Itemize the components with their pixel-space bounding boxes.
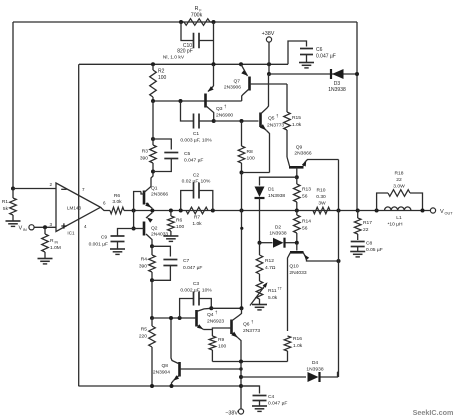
- svg-text:220: 220: [139, 334, 147, 340]
- node inverting input junction: [11, 187, 15, 191]
- svg-text:3: 3: [49, 222, 52, 227]
- ground C4: [252, 406, 267, 411]
- junction lower collector column: [240, 306, 244, 310]
- svg-text:R18: R18: [395, 171, 404, 177]
- junction R4 top: [150, 244, 154, 248]
- diode D1: [255, 187, 265, 243]
- junction Q8 collector: [169, 316, 173, 320]
- svg-text:Q6: Q6: [243, 322, 250, 328]
- svg-text:R15: R15: [292, 115, 301, 121]
- label RIN: [50, 238, 61, 251]
- svg-text:0.05 µF: 0.05 µF: [366, 247, 383, 253]
- svg-text:R11: R11: [268, 288, 277, 294]
- label Q8: [153, 363, 170, 376]
- wire Q3 base net: [153, 100, 242, 102]
- resistor R4: [149, 246, 156, 280]
- svg-text:D2: D2: [275, 225, 282, 231]
- junction D2 anode: [258, 241, 262, 245]
- resistor R1: [10, 189, 17, 222]
- label C2: [182, 173, 211, 185]
- svg-text:R10: R10: [317, 188, 326, 194]
- svg-text:7: 7: [82, 187, 85, 192]
- svg-text:Q9: Q9: [296, 145, 303, 151]
- junction RF left: [179, 20, 183, 24]
- svg-text:700k: 700k: [191, 13, 203, 19]
- label C5: [184, 151, 203, 164]
- svg-text:SeekIC.com: SeekIC.com: [413, 408, 454, 417]
- wire Q4 base net: [152, 317, 194, 319]
- ground C9: [110, 249, 125, 254]
- wire D4 net: [241, 372, 338, 377]
- label Q4: [207, 310, 224, 325]
- label C6: [316, 47, 336, 60]
- label R12: [265, 258, 276, 271]
- wire D1 net: [260, 177, 297, 185]
- terminal +38V: [266, 37, 271, 64]
- label R1: [2, 199, 9, 212]
- junction R6b top: [169, 209, 173, 213]
- ground R1: [6, 221, 21, 226]
- wire output rail segment: [358, 210, 431, 212]
- resistor R6b 100: [168, 211, 175, 237]
- svg-text:R14: R14: [302, 219, 311, 225]
- resistor R7: [186, 207, 208, 214]
- label D2: [269, 225, 286, 237]
- svg-text:820 pF: 820 pF: [177, 49, 193, 55]
- svg-text:*10 µH: *10 µH: [387, 222, 403, 228]
- junction R4 bottom: [150, 278, 154, 282]
- svg-text:22: 22: [396, 177, 402, 183]
- svg-text:1N3938: 1N3938: [268, 193, 285, 199]
- label L1: [387, 215, 403, 228]
- capacitor C1: [181, 101, 214, 129]
- svg-text:0.001 µF: 0.001 µF: [89, 242, 108, 248]
- label R6: [112, 193, 122, 205]
- wire op-amp output: [101, 207, 111, 210]
- svg-text:390: 390: [139, 264, 147, 270]
- junction Q1 emitter rail: [150, 209, 154, 213]
- label C10: [163, 43, 193, 61]
- junction C1 tap: [179, 99, 183, 103]
- wire top feedback net from inverting input to output rail: [13, 21, 357, 23]
- label D1: [268, 187, 285, 200]
- label Q3: [216, 104, 233, 119]
- svg-text:0.30: 0.30: [316, 194, 326, 200]
- svg-text:0.047 µF: 0.047 µF: [268, 401, 287, 407]
- label R9: [218, 337, 226, 350]
- wire Q4 collector net: [211, 307, 241, 309]
- wire D3 net: [269, 73, 357, 75]
- svg-text:56: 56: [302, 226, 308, 232]
- terminal VIN: [29, 225, 34, 230]
- label C1: [180, 131, 212, 144]
- wire emitter resistor return: [212, 361, 287, 363]
- wire Q3 emitter riser: [213, 64, 215, 86]
- label D4: [306, 360, 323, 373]
- svg-text:Q4: Q4: [207, 312, 214, 318]
- label C9: [89, 235, 108, 248]
- capacitor C6: [300, 49, 313, 63]
- junction R10 right: [337, 209, 341, 213]
- label R6b: [176, 218, 184, 231]
- junction Q9 base node: [295, 175, 299, 179]
- label R10: [316, 188, 326, 207]
- terminal -38V: [238, 409, 243, 414]
- capacitor C3: [180, 292, 212, 319]
- label Q6: [243, 320, 260, 335]
- resistor RIN: [42, 227, 49, 258]
- svg-text:2N6900: 2N6900: [216, 113, 233, 119]
- wire -38V column: [240, 362, 242, 410]
- svg-text:R17: R17: [363, 220, 372, 226]
- resistor R15: [284, 84, 291, 157]
- transistor Q6: [229, 308, 242, 361]
- svg-text:1N3938: 1N3938: [328, 87, 346, 93]
- junction D4 node: [239, 375, 243, 379]
- wire R4 to base node: [151, 280, 153, 318]
- transistor Q9: [287, 157, 339, 177]
- label R17: [363, 220, 372, 233]
- pin 7 label: [82, 187, 85, 192]
- resistor R18: [377, 190, 423, 211]
- potentiometer R11: [250, 281, 268, 306]
- svg-text:100: 100: [247, 156, 255, 162]
- label Q2: [151, 226, 168, 238]
- capacitor C10: [181, 22, 214, 48]
- svg-text:R12: R12: [265, 258, 274, 264]
- svg-text:C3: C3: [193, 281, 200, 287]
- svg-text:R9: R9: [218, 337, 225, 343]
- transistor Q5: [260, 74, 270, 173]
- resistor R3: [150, 139, 157, 172]
- junction RIN top: [43, 225, 47, 229]
- svg-text:R13: R13: [302, 187, 311, 193]
- wire Q1 base riser: [134, 192, 141, 211]
- label VOUT: [440, 209, 453, 216]
- svg-text:3W: 3W: [318, 201, 326, 207]
- label R8: [247, 149, 255, 162]
- wire pin2 input: [13, 188, 56, 190]
- label RF value: [191, 6, 203, 19]
- junction C3 tap: [178, 316, 182, 320]
- label R7: [192, 215, 202, 228]
- diode D2: [273, 238, 285, 248]
- resistor R13: [294, 177, 301, 210]
- svg-text:6: 6: [103, 201, 106, 206]
- svg-text:0.02 µF, 10%: 0.02 µF, 10%: [182, 179, 211, 185]
- junction R2 top: [151, 62, 155, 66]
- label R14: [302, 219, 311, 232]
- pin 2 label: [49, 182, 52, 187]
- capacitor C8: [351, 242, 365, 252]
- junction Q3 collector node: [212, 119, 216, 123]
- label Q9: [294, 145, 311, 157]
- transistor Q3: [206, 86, 214, 121]
- junction Q2 base node: [132, 227, 136, 231]
- wire Q2 base riser: [133, 211, 135, 229]
- pin 4 label: [84, 224, 87, 229]
- junction RF right: [212, 20, 216, 24]
- svg-text:0.047 µF: 0.047 µF: [184, 158, 203, 164]
- svg-text:R8: R8: [247, 149, 254, 155]
- junction R3 top: [151, 137, 155, 141]
- svg-text:IC1: IC1: [67, 231, 75, 236]
- wire +38V to D3 node: [268, 64, 270, 74]
- wire C6 lead: [288, 41, 307, 64]
- svg-text:2N3773: 2N3773: [243, 328, 260, 334]
- junction return/-38V column: [239, 360, 243, 364]
- svg-text:Q1: Q1: [151, 186, 158, 192]
- wire Q1 collector riser: [151, 172, 153, 184]
- wire inverting-input column: [12, 22, 14, 189]
- label C3: [180, 281, 212, 294]
- wire R8 to Q5 emitter: [242, 172, 270, 174]
- resistor R16: [284, 336, 291, 362]
- wire R2 node to R3: [152, 101, 154, 139]
- resistor R6: [110, 207, 134, 214]
- ground C6: [299, 63, 314, 68]
- svg-text:Q8: Q8: [161, 363, 168, 369]
- svg-text:0.047 µF: 0.047 µF: [183, 265, 202, 271]
- svg-text:Q7: Q7: [233, 79, 240, 85]
- svg-text:C9: C9: [101, 235, 108, 241]
- svg-text:††: ††: [278, 286, 282, 291]
- svg-text:R7: R7: [194, 215, 201, 221]
- svg-text:Q2: Q2: [151, 226, 158, 232]
- junction L1 right: [421, 209, 425, 213]
- junction R7 right: [211, 209, 215, 213]
- junction rail x=241.5: [240, 209, 244, 213]
- label R13: [302, 187, 311, 200]
- svg-text:5.0k: 5.0k: [268, 295, 278, 301]
- svg-text:R: R: [50, 238, 54, 244]
- label R16: [293, 336, 303, 349]
- label C8: [366, 241, 383, 254]
- capacitor C7: [152, 246, 177, 280]
- junction Q4 base node: [150, 316, 154, 320]
- svg-text:C2: C2: [193, 173, 200, 179]
- terminal VOUT: [430, 208, 435, 213]
- wire output net column: [338, 160, 340, 378]
- svg-text:IN: IN: [23, 228, 27, 232]
- svg-text:R2: R2: [158, 69, 165, 75]
- label R4: [139, 257, 147, 270]
- resistor R8: [238, 121, 245, 173]
- svg-text:2N6923: 2N6923: [207, 319, 224, 325]
- svg-text:Q3: Q3: [216, 106, 223, 112]
- svg-text:C6: C6: [316, 47, 323, 53]
- svg-text:3.0W: 3.0W: [393, 184, 405, 190]
- transistor Q2: [141, 213, 153, 247]
- svg-text:C4: C4: [268, 394, 275, 400]
- svg-text:C7: C7: [183, 258, 190, 264]
- transistor Q10: [288, 243, 339, 331]
- capacitor C4: [253, 396, 267, 407]
- svg-text:4.7Ω: 4.7Ω: [265, 265, 276, 271]
- junction +38V on rail: [267, 62, 271, 66]
- wire output feedback column: [356, 22, 358, 211]
- junction rail x=213.5: [212, 62, 216, 66]
- resistor R17: [354, 211, 361, 241]
- label R3: [140, 149, 148, 162]
- ground R11: [252, 305, 267, 310]
- svg-text:R6: R6: [114, 193, 121, 199]
- capacitor C5: [153, 139, 178, 172]
- svg-text:5k: 5k: [3, 206, 9, 212]
- svg-text:0.002 µF, 10%: 0.002 µF, 10%: [180, 288, 212, 294]
- svg-text:OUT: OUT: [445, 212, 454, 216]
- svg-text:4: 4: [84, 224, 87, 229]
- wire +38V rail: [79, 63, 288, 65]
- svg-text:R3: R3: [142, 149, 149, 155]
- svg-text:Q5: Q5: [268, 116, 275, 122]
- label R2: [158, 69, 167, 82]
- junction R7 left: [179, 209, 183, 213]
- svg-text:+38V: +38V: [262, 31, 275, 37]
- wire -38V bottom rail: [78, 385, 259, 387]
- junction R18 riser: [375, 209, 379, 213]
- svg-text:C8: C8: [366, 241, 373, 247]
- svg-text:Nl, 1.0 kV: Nl, 1.0 kV: [163, 55, 185, 61]
- svg-text:56: 56: [302, 194, 308, 200]
- svg-text:R16: R16: [293, 336, 302, 342]
- junction Q10 emitter column: [337, 259, 341, 263]
- watermark SeekIC.com: [413, 408, 454, 417]
- svg-text:Q10: Q10: [289, 264, 299, 270]
- wire D2 net: [260, 242, 297, 244]
- label Q7: [224, 79, 241, 91]
- junction Q8 emitter rail: [170, 384, 174, 388]
- wire C4 lead: [241, 386, 260, 394]
- resistor RF: [181, 19, 214, 26]
- resistor R10: [313, 207, 330, 214]
- ground C8: [350, 252, 365, 257]
- svg-text:D1: D1: [268, 187, 275, 193]
- svg-text:1.0k: 1.0k: [293, 343, 303, 349]
- pin 3 label: [49, 222, 52, 227]
- op-amp IC1 LM143: [56, 183, 101, 236]
- svg-text:R: R: [195, 6, 199, 12]
- wire main signal rail: [134, 210, 358, 212]
- junction R5 bottom rail: [150, 384, 154, 388]
- junction Q8 base column: [239, 367, 242, 370]
- wire C10/Q3-emitter column: [213, 22, 215, 64]
- junction R2 bottom: [151, 99, 155, 103]
- svg-text:2N3904: 2N3904: [153, 370, 170, 376]
- svg-text:100: 100: [218, 344, 226, 350]
- svg-text:R5: R5: [141, 327, 148, 333]
- label R15: [292, 115, 302, 128]
- label R11: [268, 286, 282, 302]
- svg-text:1.0k: 1.0k: [192, 221, 202, 227]
- svg-text:LM143: LM143: [67, 206, 81, 211]
- wire Q2 base lead: [134, 228, 141, 230]
- svg-text:2: 2: [49, 182, 52, 187]
- svg-text:2N3773: 2N3773: [267, 123, 284, 129]
- label -38V: [225, 411, 238, 417]
- inductor L1: [385, 207, 411, 211]
- label R5: [139, 327, 147, 340]
- wire Q6 base lead: [212, 328, 228, 330]
- junction Q4 collector node: [209, 306, 213, 310]
- capacitor C9: [111, 229, 134, 250]
- capacitor C2: [181, 183, 213, 211]
- svg-text:L1: L1: [396, 215, 402, 221]
- svg-text:R6: R6: [176, 218, 183, 224]
- junction D3 anode rail node: [267, 72, 271, 76]
- diode D3: [331, 69, 344, 79]
- svg-text:R4: R4: [141, 257, 148, 263]
- label D3: [328, 81, 346, 93]
- pin 6 label: [103, 201, 106, 206]
- svg-text:2N4033: 2N4033: [289, 270, 306, 276]
- resistor R12: [256, 243, 263, 281]
- wire center column rail to lower stage: [241, 173, 243, 309]
- transistor Q7: [241, 64, 287, 101]
- svg-text:R1: R1: [2, 199, 8, 205]
- svg-text:390: 390: [140, 156, 148, 162]
- svg-text:0.003 µF, 10%: 0.003 µF, 10%: [180, 138, 212, 144]
- wire Q5 base net: [214, 120, 259, 122]
- svg-text:V: V: [440, 209, 444, 215]
- label VIN: [19, 226, 27, 233]
- label R18: [393, 171, 405, 190]
- svg-text:100: 100: [176, 224, 184, 230]
- svg-text:C5: C5: [184, 151, 191, 157]
- label C4: [268, 394, 287, 407]
- label Q1: [151, 186, 168, 198]
- junction bottom rail/-38V: [239, 384, 243, 388]
- svg-text:0.047 µF: 0.047 µF: [316, 54, 336, 60]
- junction R3 bottom: [151, 170, 155, 174]
- ground RIN: [38, 259, 53, 264]
- svg-text:1N3938: 1N3938: [306, 367, 323, 373]
- svg-text:2N3866: 2N3866: [151, 192, 168, 198]
- svg-text:2N3866: 2N3866: [294, 151, 311, 157]
- label C7: [183, 258, 202, 271]
- junction R8 bottom: [240, 171, 244, 175]
- label +38V: [262, 31, 275, 37]
- junction stray node: [240, 227, 243, 230]
- wire V+/V- supply column through op-amp: [78, 64, 80, 386]
- svg-text:100: 100: [158, 75, 167, 81]
- resistor R5: [149, 318, 156, 386]
- junction R6/base riser: [132, 209, 136, 213]
- resistor R14: [294, 211, 301, 243]
- junction R13 bottom rail: [295, 209, 299, 213]
- svg-text:22: 22: [363, 227, 369, 233]
- transistor Q4: [194, 308, 213, 329]
- svg-text:−38V: −38V: [225, 411, 238, 417]
- svg-text:1.0k: 1.0k: [292, 122, 302, 128]
- transistor Q1: [141, 183, 152, 209]
- wire D4 to output column: [338, 371, 339, 373]
- svg-text:1.0M: 1.0M: [50, 245, 61, 251]
- svg-text:D4: D4: [312, 360, 319, 366]
- svg-text:IN: IN: [55, 241, 59, 245]
- resistor R2: [150, 64, 157, 101]
- diode D4: [308, 372, 320, 382]
- wire pin3 input: [34, 226, 56, 228]
- svg-text:C1: C1: [193, 131, 200, 137]
- svg-text:3.0k: 3.0k: [112, 199, 122, 205]
- label Q5: [267, 114, 284, 129]
- junction R8 top: [240, 119, 244, 123]
- transistor Q8: [171, 318, 241, 386]
- svg-text:1N3938: 1N3938: [269, 231, 286, 237]
- junction D3 output column: [355, 72, 359, 76]
- label Q10: [289, 264, 306, 277]
